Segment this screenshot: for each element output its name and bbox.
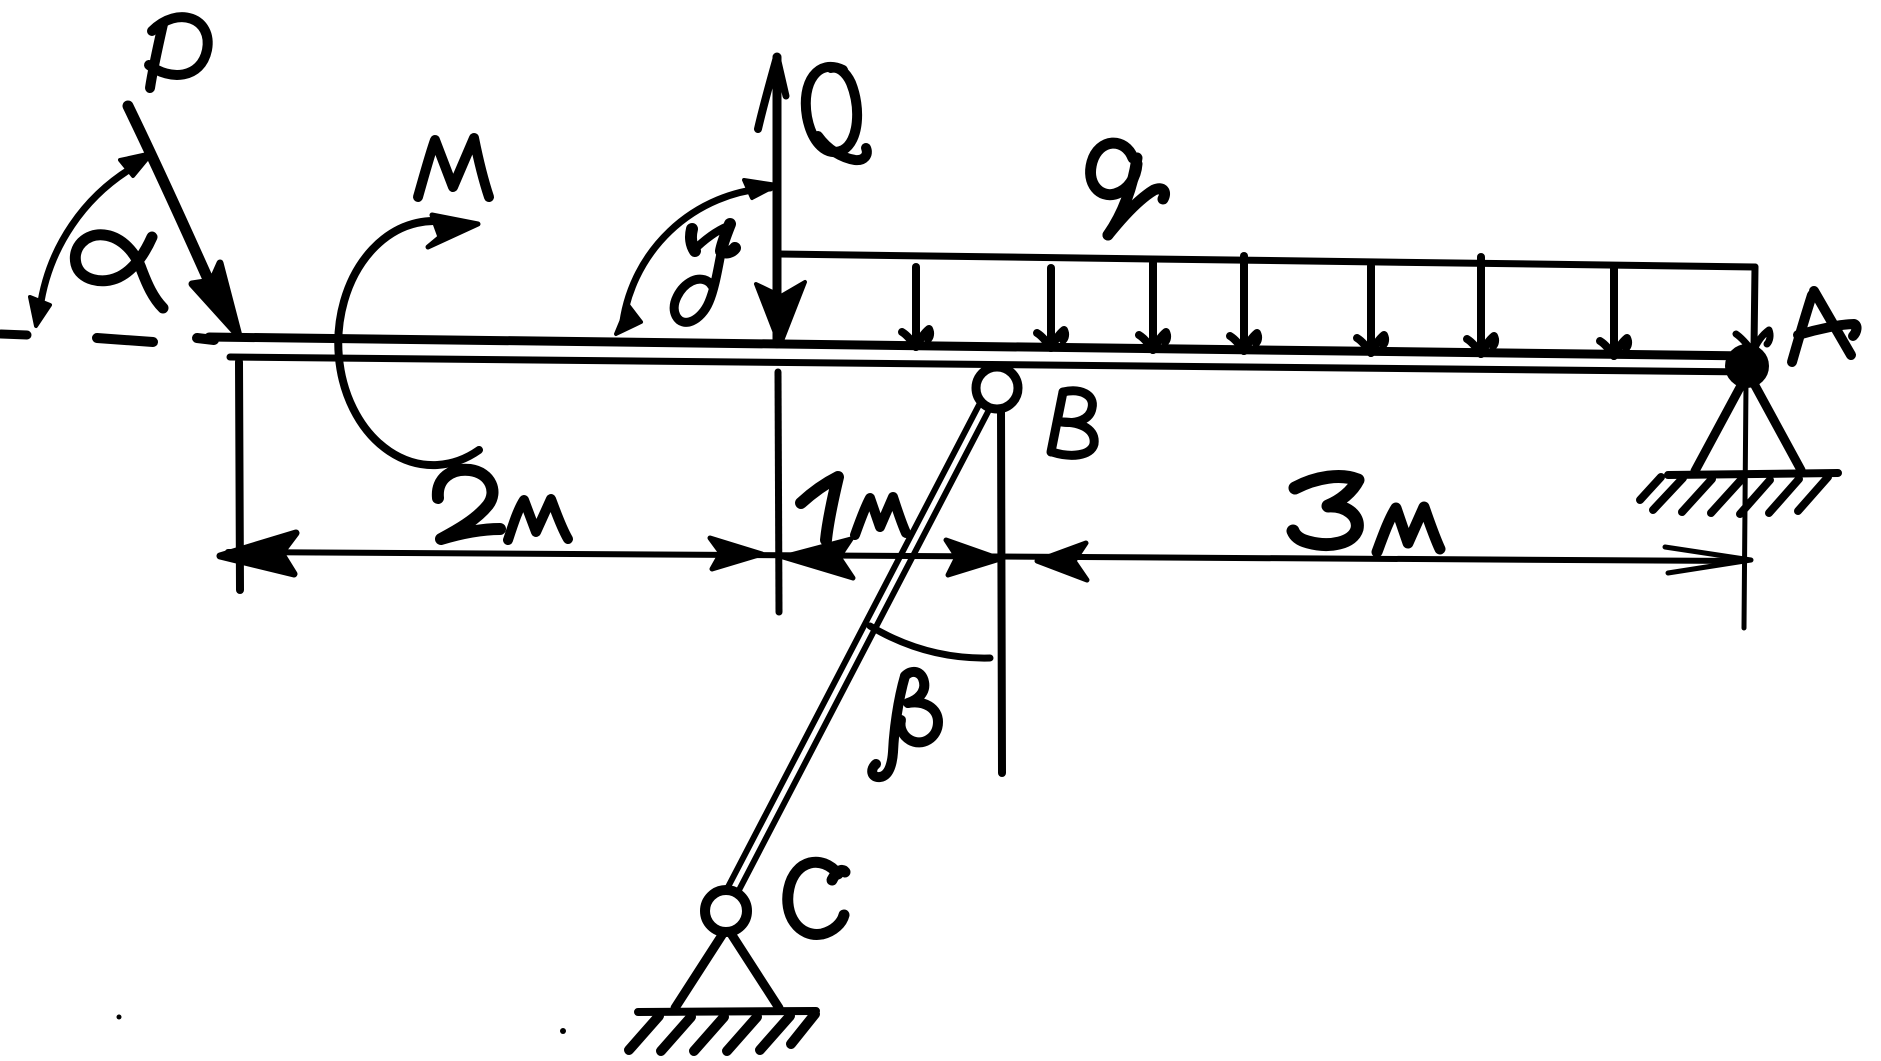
label q	[1091, 143, 1165, 235]
moment M arc	[338, 215, 479, 465]
support A triangle	[1695, 380, 1801, 471]
angle beta arc	[870, 626, 990, 658]
support A ground	[1668, 473, 1838, 475]
label 1m	[801, 477, 906, 540]
support C pin	[705, 890, 747, 932]
label Q	[806, 67, 867, 160]
label M	[418, 138, 489, 197]
vertical line below B	[1001, 410, 1002, 773]
angle alpha arc	[30, 153, 152, 326]
beam top line	[209, 337, 1752, 356]
dashed reference line left of beam	[1, 334, 214, 342]
label 2m	[438, 470, 568, 540]
pin B	[976, 367, 1018, 409]
distributed load right edge	[1736, 267, 1770, 352]
link bar B-C	[728, 403, 990, 892]
support A hatching	[1640, 477, 1828, 514]
stray ink dot	[560, 1028, 566, 1034]
force P line	[128, 106, 239, 336]
support C ground	[638, 1011, 816, 1012]
label A	[1792, 291, 1857, 362]
force Q vertical line	[756, 57, 805, 346]
extension crossing arrows at x=779	[710, 538, 853, 578]
label 3m	[1293, 477, 1440, 552]
angle gamma arc	[616, 180, 777, 334]
label alpha	[75, 235, 163, 308]
dimension left arrowhead	[220, 533, 296, 574]
dimension right pencil arrow	[1665, 547, 1751, 573]
extension line left end	[239, 362, 240, 590]
dimension line	[228, 552, 1745, 561]
label gamma	[674, 224, 735, 322]
extension line below Q at x=779	[778, 372, 779, 612]
distributed load arrows	[902, 256, 1628, 356]
support C triangle	[675, 932, 779, 1008]
support A centerline	[1744, 383, 1746, 628]
label C	[788, 862, 845, 934]
support A pin	[1728, 347, 1766, 385]
label P	[149, 17, 208, 88]
distributed load q top line	[779, 254, 1755, 267]
label beta	[872, 672, 938, 777]
beam bottom line	[230, 357, 1752, 372]
extension crossing arrows at x=1001	[946, 540, 1087, 580]
label B	[1051, 391, 1094, 455]
support C hatching	[629, 1014, 815, 1051]
